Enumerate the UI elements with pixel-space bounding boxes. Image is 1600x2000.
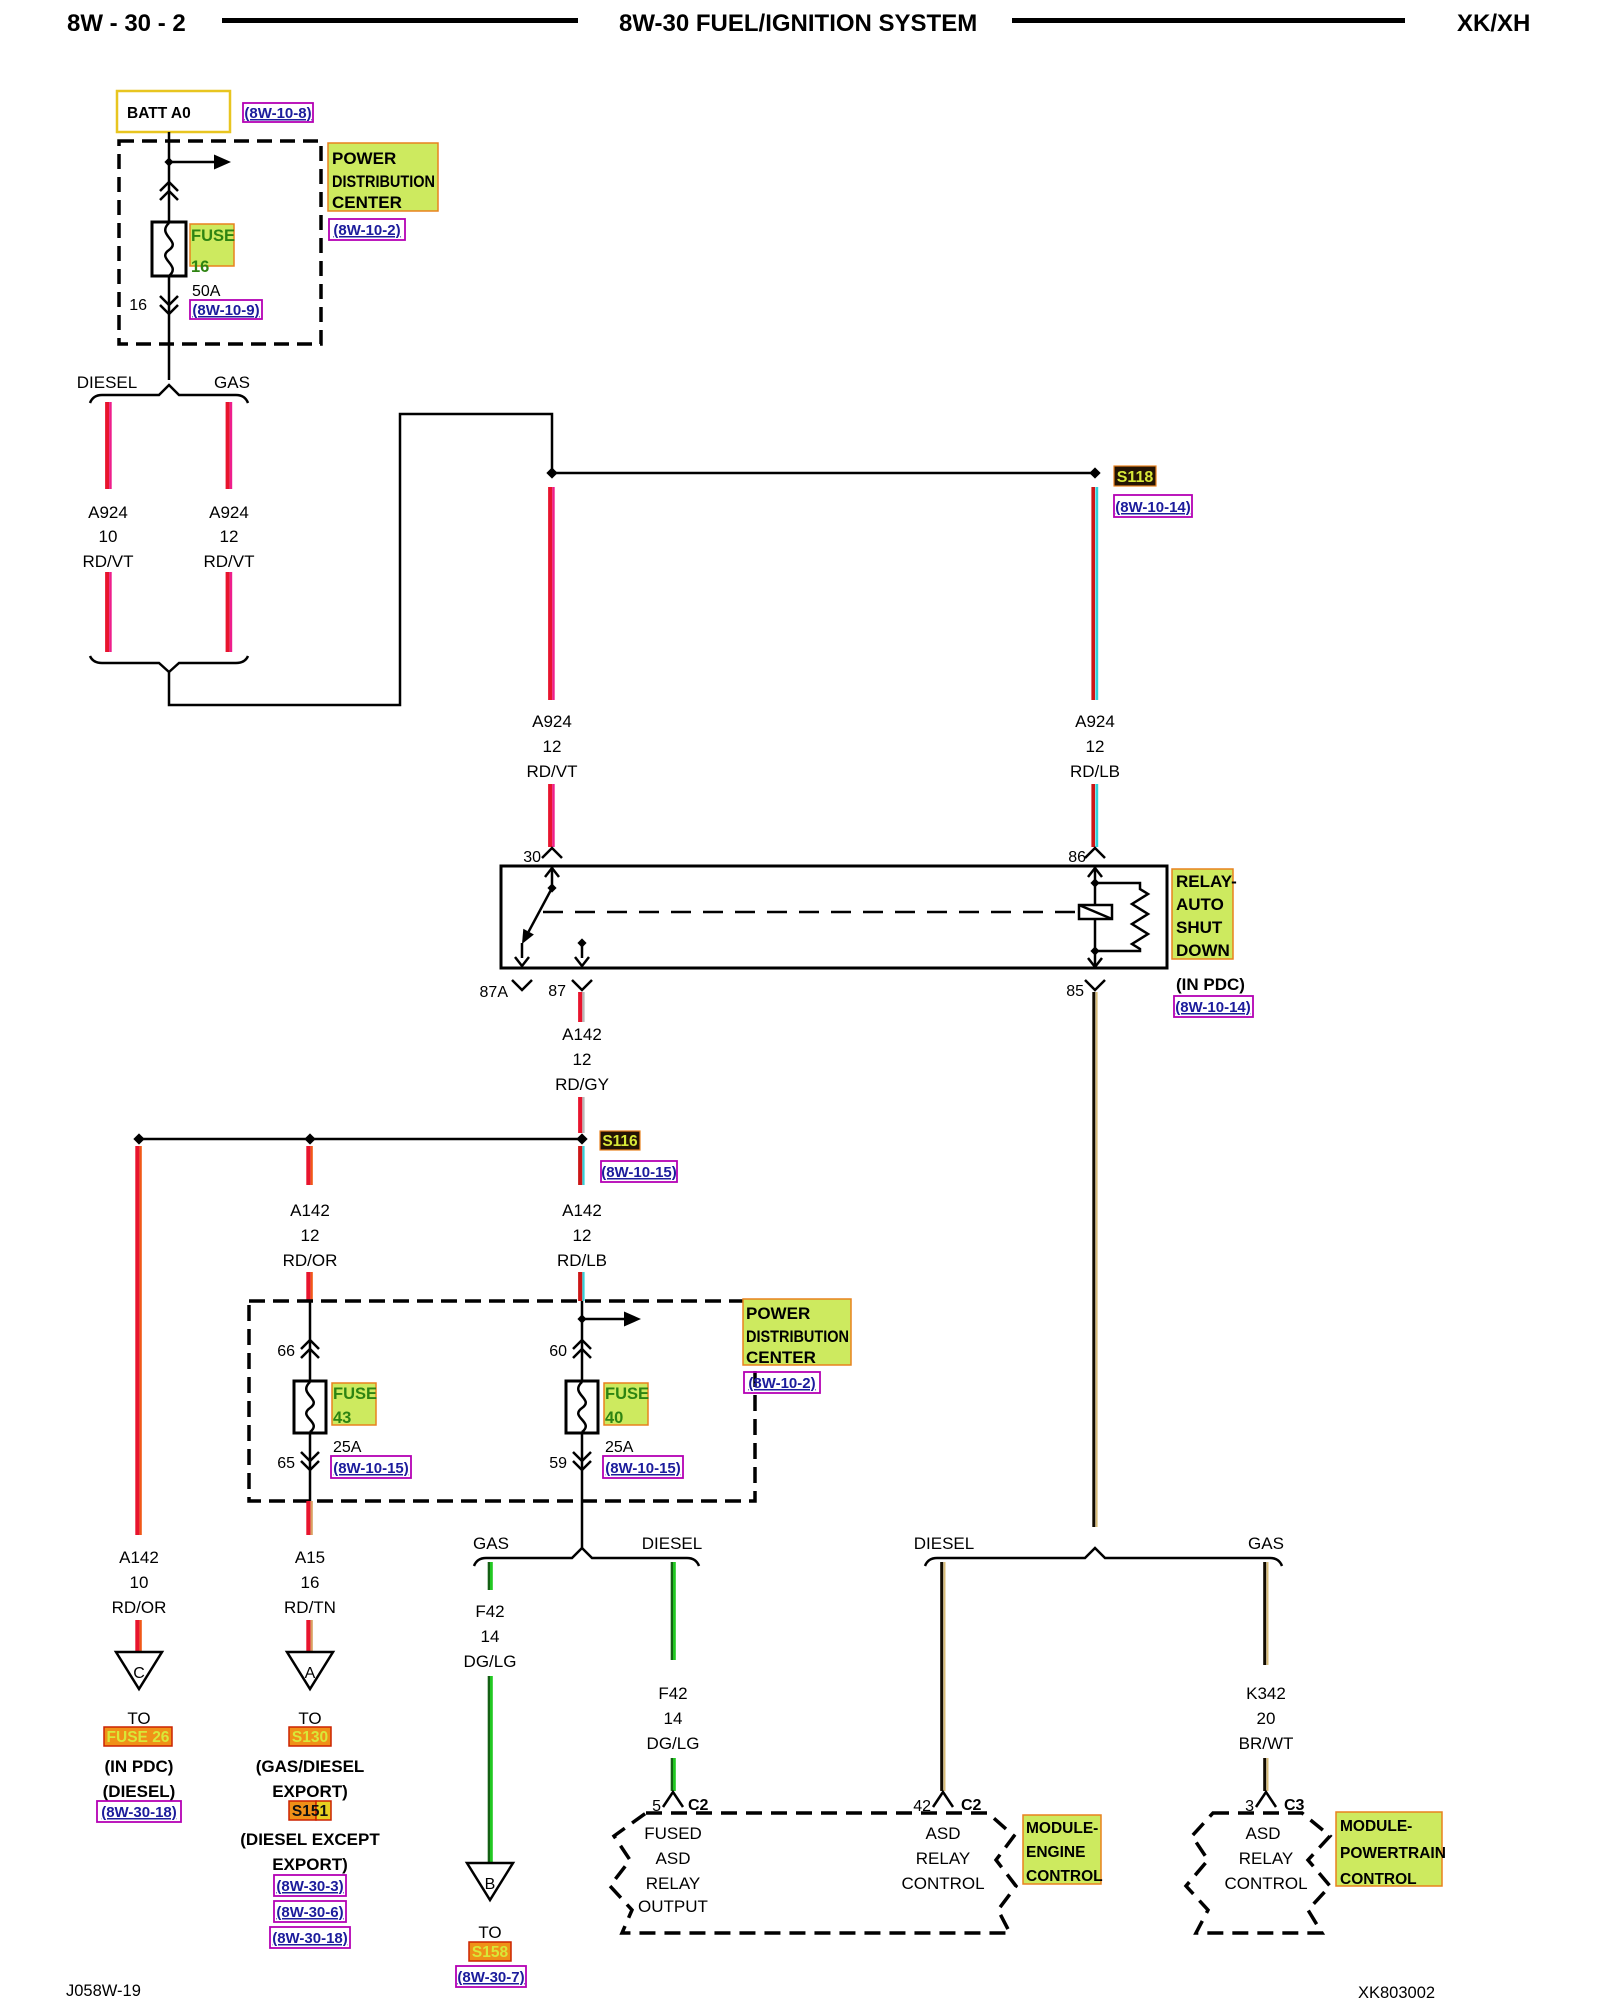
fuse 43 branch wire xyxy=(309,1301,312,1381)
svg-text:POWERTRAIN: POWERTRAIN xyxy=(1340,1845,1446,1862)
pin 66 chevrons xyxy=(301,1340,319,1358)
pin 3 connector C3 xyxy=(1256,1792,1276,1807)
wire A924 12 RD/VT gas xyxy=(226,402,230,489)
pin 87 internal stub xyxy=(577,938,586,947)
svg-text:(8W-30-3): (8W-30-3) xyxy=(276,1878,343,1895)
svg-text:B: B xyxy=(485,1876,496,1893)
battery feed box BATT A0 xyxy=(117,91,230,132)
svg-text:CENTER: CENTER xyxy=(746,1348,816,1367)
svg-text:DIESEL: DIESEL xyxy=(642,1534,702,1553)
PDC label 2 xyxy=(743,1299,851,1365)
junction node xyxy=(546,467,557,478)
splice S118 node xyxy=(1089,467,1100,478)
link 8W-10-9 xyxy=(190,300,262,319)
splice S116 node xyxy=(576,1133,587,1144)
svg-text:FUSE: FUSE xyxy=(605,1385,649,1403)
svg-text:A142: A142 xyxy=(119,1548,159,1567)
brace split gas/diesel xyxy=(474,1548,699,1566)
svg-text:50A: 50A xyxy=(192,283,221,300)
wire A15 16 RD/TN below PDC xyxy=(306,1501,310,1535)
svg-text:S151: S151 xyxy=(292,1803,329,1820)
svg-text:MODULE-: MODULE- xyxy=(1340,1818,1412,1835)
svg-text:87: 87 xyxy=(548,983,566,1000)
svg-text:A924: A924 xyxy=(209,503,249,522)
svg-text:XK/XH: XK/XH xyxy=(1457,10,1530,37)
svg-text:EXPORT): EXPORT) xyxy=(272,1782,348,1801)
brace split diesel/gas xyxy=(90,385,248,403)
svg-text:RD/VT: RD/VT xyxy=(83,552,134,571)
svg-text:A15: A15 xyxy=(295,1548,325,1567)
svg-text:RD/TN: RD/TN xyxy=(284,1598,336,1617)
svg-text:MODULE-: MODULE- xyxy=(1026,1820,1098,1837)
brace merge diesel/gas xyxy=(90,656,248,672)
wire K342 from pin 85 xyxy=(1092,992,1095,1527)
link 8W-10-14 xyxy=(1114,495,1192,517)
svg-text:RELAY: RELAY xyxy=(646,1874,701,1893)
svg-text:12: 12 xyxy=(220,527,239,546)
wire A924 10 RD/VT diesel xyxy=(105,402,109,489)
svg-text:BATT A0: BATT A0 xyxy=(127,105,191,122)
splice S116 label xyxy=(600,1131,640,1150)
svg-text:(8W-10-8): (8W-10-8) xyxy=(244,105,311,122)
svg-text:(DIESEL EXCEPT: (DIESEL EXCEPT xyxy=(240,1830,380,1849)
splice S151 note xyxy=(289,1801,316,1820)
svg-text:K342: K342 xyxy=(1246,1684,1286,1703)
arrow to other circuits xyxy=(169,161,214,164)
switch arm to pin 87A xyxy=(521,943,524,958)
wire A924 12 RD/VT to relay pin 30 xyxy=(548,487,552,700)
power distribution center dashed box 2 xyxy=(249,1301,755,1501)
svg-text:(8W-10-9): (8W-10-9) xyxy=(192,302,259,319)
svg-text:OUTPUT: OUTPUT xyxy=(638,1897,708,1916)
link 8W-10-2 xyxy=(329,219,405,240)
svg-text:8W-30 FUEL/IGNITION SYSTEM: 8W-30 FUEL/IGNITION SYSTEM xyxy=(619,10,977,37)
fuse 40 xyxy=(566,1381,598,1433)
svg-text:16: 16 xyxy=(301,1573,320,1592)
link 8W-30-18 xyxy=(270,1927,350,1948)
svg-text:RD/LB: RD/LB xyxy=(1070,762,1120,781)
svg-text:S116: S116 xyxy=(602,1133,638,1150)
wire continuation chevrons down xyxy=(160,296,178,314)
relay switch pin 30 stem xyxy=(551,867,554,886)
svg-text:GAS: GAS xyxy=(214,373,250,392)
svg-text:CONTROL: CONTROL xyxy=(1224,1874,1307,1893)
svg-text:FUSED: FUSED xyxy=(644,1824,702,1843)
svg-text:FUSE 26: FUSE 26 xyxy=(107,1729,170,1746)
fuse 43 label xyxy=(332,1383,376,1425)
link 8W-10-8 xyxy=(243,103,313,122)
link 8W-30-6 xyxy=(274,1901,346,1922)
svg-text:16: 16 xyxy=(129,297,147,314)
svg-text:C: C xyxy=(133,1665,145,1682)
power distribution center dashed box xyxy=(119,141,321,344)
off-page connector A xyxy=(287,1652,333,1689)
svg-text:BR/WT: BR/WT xyxy=(1239,1734,1294,1753)
svg-text:(8W-10-14): (8W-10-14) xyxy=(1115,499,1191,516)
wire bus to S118 xyxy=(552,472,1095,475)
svg-text:10: 10 xyxy=(99,527,118,546)
splice S118 label xyxy=(1114,466,1156,486)
svg-text:CONTROL: CONTROL xyxy=(901,1874,984,1893)
svg-text:43: 43 xyxy=(333,1409,351,1427)
svg-text:12: 12 xyxy=(1086,737,1105,756)
pin 42 connector C2 xyxy=(933,1792,953,1807)
svg-text:(8W-10-2): (8W-10-2) xyxy=(748,1375,815,1392)
svg-text:65: 65 xyxy=(277,1455,295,1472)
wire A142 12 RD/OR middle branch xyxy=(306,1146,310,1185)
link 8W-10-15 xyxy=(331,1456,411,1478)
svg-text:POWER: POWER xyxy=(332,149,396,168)
svg-text:ENGINE: ENGINE xyxy=(1026,1844,1085,1861)
wire A142 12 RD/LB right branch xyxy=(578,1146,582,1185)
pin 59 chevrons xyxy=(573,1452,591,1470)
svg-text:60: 60 xyxy=(549,1343,567,1360)
module powertrain control label xyxy=(1336,1812,1442,1886)
svg-text:F42: F42 xyxy=(475,1602,504,1621)
svg-text:A924: A924 xyxy=(88,503,128,522)
wire F42 14 DG/LG diesel branch xyxy=(671,1562,673,1660)
svg-text:16: 16 xyxy=(191,258,209,276)
svg-text:ASD: ASD xyxy=(656,1849,691,1868)
module engine control label xyxy=(1023,1815,1101,1884)
pin 87A xyxy=(512,980,532,990)
pin 60 chevrons xyxy=(573,1340,591,1358)
relay internal dashed control line xyxy=(543,911,1078,914)
svg-text:14: 14 xyxy=(481,1627,500,1646)
svg-text:TO: TO xyxy=(298,1709,321,1728)
svg-text:RELAY-: RELAY- xyxy=(1176,872,1237,891)
wire F42 14 DG/LG gas branch xyxy=(488,1562,490,1590)
svg-text:(8W-10-15): (8W-10-15) xyxy=(333,1460,409,1477)
svg-text:DISTRIBUTION: DISTRIBUTION xyxy=(746,1327,849,1346)
svg-text:RD/VT: RD/VT xyxy=(204,552,255,571)
svg-text:87A: 87A xyxy=(480,984,509,1001)
arrow to other circuits xyxy=(582,1318,624,1321)
svg-text:(8W-10-15): (8W-10-15) xyxy=(605,1460,681,1477)
svg-text:(8W-10-2): (8W-10-2) xyxy=(333,222,400,239)
svg-text:86: 86 xyxy=(1068,849,1086,866)
link 8W-10-15 xyxy=(601,1161,677,1182)
relay auto shut down box xyxy=(501,866,1167,968)
pin 65 chevrons xyxy=(301,1452,319,1470)
relay coil xyxy=(1079,905,1112,919)
svg-text:DG/LG: DG/LG xyxy=(464,1652,517,1671)
svg-text:ASD: ASD xyxy=(926,1824,961,1843)
svg-text:12: 12 xyxy=(301,1226,320,1245)
fuse 16 label xyxy=(190,224,234,266)
svg-text:12: 12 xyxy=(573,1050,592,1069)
svg-text:RELAY: RELAY xyxy=(1239,1849,1294,1868)
svg-text:RD/GY: RD/GY xyxy=(555,1075,609,1094)
link 8W-10-15 xyxy=(603,1456,683,1478)
module powertrain control box xyxy=(1186,1813,1330,1933)
link 8W-30-7 xyxy=(456,1966,526,1987)
svg-text:12: 12 xyxy=(573,1226,592,1245)
svg-text:A142: A142 xyxy=(562,1201,602,1220)
pin 5 connector C2 xyxy=(663,1792,683,1807)
svg-text:RD/OR: RD/OR xyxy=(283,1251,338,1270)
svg-text:GAS: GAS xyxy=(1248,1534,1284,1553)
svg-text:20: 20 xyxy=(1257,1709,1276,1728)
wire A924 12 RD/LB to relay pin 86 xyxy=(1091,487,1095,700)
svg-text:25A: 25A xyxy=(333,1439,362,1456)
svg-text:RELAY: RELAY xyxy=(916,1849,971,1868)
svg-text:59: 59 xyxy=(549,1455,567,1472)
svg-text:A924: A924 xyxy=(1075,712,1115,731)
svg-text:(DIESEL): (DIESEL) xyxy=(103,1782,176,1801)
svg-text:A142: A142 xyxy=(290,1201,330,1220)
fuse 43 xyxy=(294,1381,326,1433)
svg-text:S158: S158 xyxy=(472,1944,509,1961)
svg-text:(8W-30-18): (8W-30-18) xyxy=(101,1804,177,1821)
svg-text:DG/LG: DG/LG xyxy=(647,1734,700,1753)
off-page connector B xyxy=(467,1863,513,1900)
svg-text:DOWN: DOWN xyxy=(1176,941,1230,960)
svg-text:F42: F42 xyxy=(658,1684,687,1703)
svg-text:CONTROL: CONTROL xyxy=(1340,1871,1417,1888)
wire A142 12 RD/GY from pin 87 xyxy=(578,992,582,1022)
svg-text:(8W-30-6): (8W-30-6) xyxy=(276,1904,343,1921)
svg-text:30: 30 xyxy=(523,849,541,866)
svg-text:A142: A142 xyxy=(562,1025,602,1044)
svg-text:(8W-30-18): (8W-30-18) xyxy=(272,1930,348,1947)
wire from battery into PDC xyxy=(168,132,171,222)
svg-text:ASD: ASD xyxy=(1246,1824,1281,1843)
link 8W-30-3 xyxy=(274,1875,346,1896)
fuse 16 xyxy=(152,222,186,276)
svg-text:(IN PDC): (IN PDC) xyxy=(105,1757,174,1776)
link 8W-30-18 xyxy=(97,1801,181,1822)
link 8W-10-14 xyxy=(1174,996,1253,1017)
splice S116 bus xyxy=(139,1138,582,1141)
svg-text:(8W-10-14): (8W-10-14) xyxy=(1175,999,1251,1016)
svg-text:FUSE: FUSE xyxy=(333,1385,377,1403)
fuse 40 branch wire xyxy=(581,1301,584,1381)
svg-text:TO: TO xyxy=(127,1709,150,1728)
relay switch arm with arrow xyxy=(529,888,552,932)
svg-text:DISTRIBUTION: DISTRIBUTION xyxy=(332,172,435,191)
wire below fuse 43 xyxy=(309,1433,312,1501)
svg-text:FUSE: FUSE xyxy=(191,227,235,245)
relay suppression resistor xyxy=(1095,883,1148,951)
wire below fuse 40 xyxy=(581,1433,584,1548)
svg-text:25A: 25A xyxy=(605,1439,634,1456)
pin 86 xyxy=(1085,848,1105,858)
svg-text:RD/VT: RD/VT xyxy=(527,762,578,781)
svg-text:10: 10 xyxy=(130,1573,149,1592)
svg-text:85: 85 xyxy=(1066,983,1084,1000)
svg-text:RD/LB: RD/LB xyxy=(557,1251,607,1270)
pin 87 xyxy=(572,980,592,990)
svg-text:DIESEL: DIESEL xyxy=(914,1534,974,1553)
svg-text:GAS: GAS xyxy=(473,1534,509,1553)
svg-text:SHUT: SHUT xyxy=(1176,918,1223,937)
svg-text:(8W-30-7): (8W-30-7) xyxy=(457,1969,524,1986)
svg-text:(8W-10-15): (8W-10-15) xyxy=(601,1164,677,1181)
svg-text:12: 12 xyxy=(543,737,562,756)
header rule left xyxy=(222,18,578,23)
svg-text:TO: TO xyxy=(478,1923,501,1942)
wire K342 diesel branch to pin 42 xyxy=(940,1562,943,1791)
svg-text:POWER: POWER xyxy=(746,1304,810,1323)
svg-text:40: 40 xyxy=(605,1409,623,1427)
svg-text:S118: S118 xyxy=(1117,469,1154,486)
pin 85 xyxy=(1085,980,1105,990)
pin 30 xyxy=(542,848,562,858)
svg-text:(IN PDC): (IN PDC) xyxy=(1176,975,1245,994)
svg-text:A: A xyxy=(305,1665,316,1682)
svg-text:14: 14 xyxy=(664,1709,683,1728)
link 8W-10-2 xyxy=(744,1372,820,1393)
svg-text:RD/OR: RD/OR xyxy=(112,1598,167,1617)
svg-text:XK803002: XK803002 xyxy=(1358,1984,1435,2000)
off-page connector C xyxy=(116,1652,162,1689)
svg-text:EXPORT): EXPORT) xyxy=(272,1855,348,1874)
relay coil branch pin 86 xyxy=(1094,867,1097,905)
svg-text:(GAS/DIESEL: (GAS/DIESEL xyxy=(256,1757,365,1776)
PDC label xyxy=(328,143,438,211)
wire continuation chevrons xyxy=(160,182,178,200)
brace split diesel/gas K342 xyxy=(925,1548,1282,1566)
svg-text:A924: A924 xyxy=(532,712,572,731)
wire A142 10 RD/OR left branch xyxy=(135,1146,139,1535)
svg-text:8W - 30 - 2: 8W - 30 - 2 xyxy=(67,10,186,37)
svg-text:DIESEL: DIESEL xyxy=(77,373,137,392)
wire K342 20 BR/WT gas branch xyxy=(1263,1562,1266,1665)
wire routing from merge to junction xyxy=(169,414,552,705)
junction dot for arrow xyxy=(577,1314,586,1323)
svg-text:AUTO: AUTO xyxy=(1176,895,1224,914)
junction dot xyxy=(164,157,173,166)
svg-text:S130: S130 xyxy=(292,1729,328,1746)
svg-text:66: 66 xyxy=(277,1343,295,1360)
header rule right xyxy=(1012,18,1405,23)
svg-text:CONTROL: CONTROL xyxy=(1026,1868,1103,1885)
wire below fuse 16 xyxy=(168,276,171,380)
junction node middle xyxy=(304,1133,315,1144)
relay label xyxy=(1172,869,1233,959)
junction node left xyxy=(133,1133,144,1144)
svg-text:J058W-19: J058W-19 xyxy=(66,1982,141,2000)
fuse 40 label xyxy=(604,1383,648,1425)
svg-text:CENTER: CENTER xyxy=(332,193,402,212)
module engine control box xyxy=(610,1813,1016,1933)
